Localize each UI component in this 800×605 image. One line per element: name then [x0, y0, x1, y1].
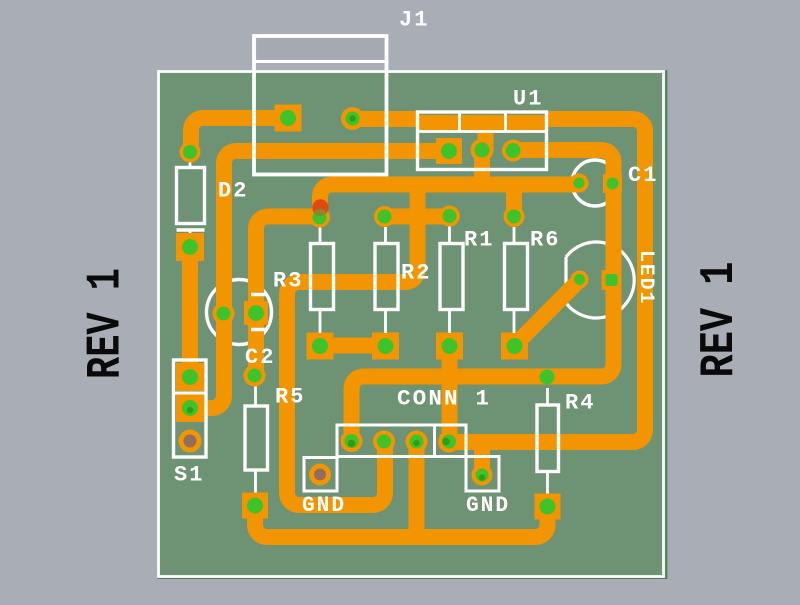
svg-text:REV 1: REV 1: [693, 262, 747, 378]
svg-text:GND: GND: [302, 493, 346, 518]
svg-text:R1: R1: [464, 228, 494, 253]
svg-text:C1: C1: [628, 163, 658, 188]
svg-text:R5: R5: [275, 385, 305, 410]
svg-text:R6: R6: [530, 228, 560, 253]
svg-text:LED1: LED1: [634, 250, 657, 305]
svg-text:R3: R3: [273, 269, 303, 294]
svg-text:REV 1: REV 1: [80, 268, 134, 379]
svg-text:S1: S1: [174, 463, 204, 488]
svg-text:CONN 1: CONN 1: [397, 387, 491, 412]
svg-text:J1: J1: [399, 8, 429, 33]
svg-text:C2: C2: [245, 345, 275, 370]
svg-text:R4: R4: [565, 391, 595, 416]
svg-text:R2: R2: [401, 261, 431, 286]
svg-text:U1: U1: [513, 87, 543, 112]
svg-text:GND: GND: [466, 493, 510, 518]
svg-text:D2: D2: [218, 179, 248, 204]
